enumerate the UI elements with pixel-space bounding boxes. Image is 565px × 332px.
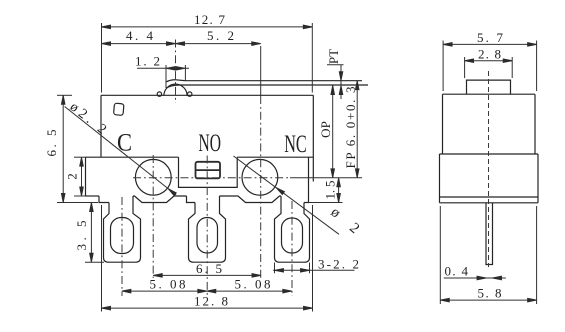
terminal C oval hole (111, 218, 134, 254)
dimension 12.8 (102, 205, 313, 312)
lever hinge lower fillet arc (166, 85, 180, 88)
centerline hinge (175, 40, 177, 104)
svg-text:3-2. 2: 3-2. 2 (318, 256, 359, 271)
contact circle C (135, 159, 171, 195)
dimension 1.5 (308, 178, 343, 203)
side view lower housing (440, 154, 539, 203)
svg-text:5. 7: 5. 7 (477, 30, 504, 45)
NO contact bridge (196, 162, 221, 179)
svg-text:NC: NC (284, 129, 307, 158)
dimension 6.5 left (44, 95, 98, 202)
datum line through contact centers (290, 177, 362, 179)
midsection right edge (308, 157, 310, 196)
lever hinge upper fillet arc (166, 80, 185, 82)
svg-text:NO: NO (199, 128, 222, 157)
dimension 5.8 (440, 206, 536, 304)
dimension 4.4 (102, 28, 176, 45)
dimension 5.7 (443, 30, 536, 91)
side view centerline (488, 71, 490, 267)
body outline top (101, 95, 313, 181)
collar right of terminal NC (304, 196, 309, 203)
svg-text:OP: OP (318, 121, 333, 138)
centerline contact C (152, 155, 154, 278)
centerline terminal NC (291, 201, 293, 296)
collar left of terminal C (99, 196, 109, 203)
small vent hole top-left (114, 103, 124, 115)
dimension 2 (65, 157, 87, 196)
centerline terminal NO (206, 156, 208, 297)
svg-text:FP 6. 0+0. 3: FP 6. 0+0. 3 (343, 87, 358, 169)
svg-text:C: C (117, 128, 132, 157)
terminal NC oval hole (282, 218, 303, 253)
contact circle NC (242, 159, 278, 195)
svg-text:5. 8: 5. 8 (478, 286, 502, 301)
dimension 6.5 bottom (153, 261, 261, 277)
lever top line (185, 80, 363, 82)
dimension 2.8 (465, 46, 513, 78)
bump under contact C (133, 196, 187, 203)
terminal C leg (104, 196, 141, 262)
svg-text:1. 5: 1. 5 (323, 181, 338, 200)
svg-text:PT: PT (326, 49, 341, 64)
svg-text:12. 7: 12. 7 (194, 12, 226, 27)
dimension 3.5 (74, 203, 104, 263)
collar left of terminal NO (187, 196, 196, 203)
side view button (467, 80, 511, 94)
dimension FP 6.0+0.3 (343, 81, 359, 178)
svg-text:2. 8: 2. 8 (478, 46, 501, 61)
dimension 0.4 (444, 264, 506, 280)
svg-text:1. 2: 1. 2 (135, 53, 160, 68)
centerline terminal C (121, 197, 123, 296)
svg-text:2: 2 (65, 173, 80, 180)
leader diameter 2.2 (65, 100, 177, 196)
lever bottom line (180, 84, 369, 86)
hinge pin circle right (188, 92, 192, 96)
body mid shelf lines (86, 157, 314, 196)
dimension 5.08 right (207, 277, 292, 293)
leader diameter 2 (234, 156, 363, 237)
terminal NO oval hole (197, 218, 218, 254)
terminal NC leg (275, 196, 310, 262)
terminal NO leg (189, 196, 226, 262)
dimension 12.7 (102, 12, 313, 93)
lever hinge curl arc (164, 84, 187, 96)
dimension 5.08 left (122, 277, 207, 293)
side view terminal pin (486, 203, 493, 265)
dimension 5.2 (176, 28, 261, 278)
dimension 3-2.2 (273, 256, 359, 273)
dimension OP (318, 86, 335, 178)
side view upper housing (443, 94, 536, 154)
dimension 1.2 (135, 53, 189, 88)
svg-text:12. 8: 12. 8 (194, 294, 228, 309)
svg-text:0. 4: 0. 4 (445, 264, 469, 279)
plunger pocket (179, 157, 238, 187)
bump under contact NC (220, 196, 282, 203)
dimension PT (326, 49, 344, 99)
hinge pin circle left (157, 92, 161, 96)
